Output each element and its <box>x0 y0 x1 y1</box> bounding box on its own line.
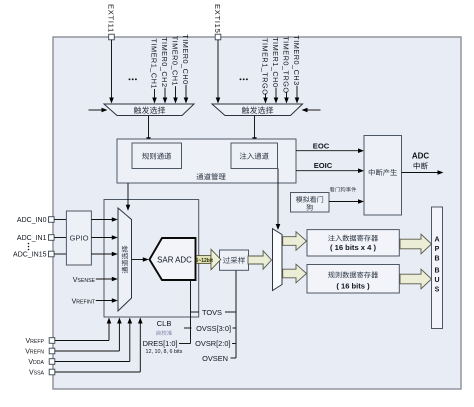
wire GPIO out 0 to channel mux <box>91 217 117 222</box>
svg-text:U: U <box>434 277 439 284</box>
signal TIMER1_CH1 <box>150 39 159 104</box>
label OVSR[2:0] <box>195 339 236 348</box>
oversampler box (过采样) <box>220 250 249 270</box>
wire DRES to core <box>179 281 191 344</box>
wire VSSA to ADC core <box>55 318 143 373</box>
wire ADC_IN1 to GPIO <box>54 237 66 239</box>
pin ADC_IN15 <box>13 251 54 258</box>
wire watchdog event to interrupt box <box>329 199 364 204</box>
signal TIMER0_CH2 <box>160 37 169 103</box>
APB bus <box>432 207 443 329</box>
output ADC interrupt <box>402 152 444 175</box>
injected channel box (注入通道) <box>231 143 278 169</box>
svg-text:( 16 bits ): ( 16 bits ) <box>336 281 370 290</box>
label OVSEN <box>202 354 236 363</box>
pin EXTI11 <box>107 4 116 40</box>
wire oversample controls to oversampler <box>235 271 237 359</box>
arrow regular register to APB bus <box>400 269 432 289</box>
svg-text:EXTI15: EXTI15 <box>213 4 222 34</box>
channel selection mux (通道选择) <box>118 208 132 311</box>
svg-text:VDDA: VDDA <box>28 359 44 366</box>
svg-text:TIMER1_CH1: TIMER1_CH1 <box>150 39 159 89</box>
GPIO box <box>66 211 91 265</box>
svg-text:ADC: ADC <box>412 152 430 161</box>
svg-text:EOC: EOC <box>313 141 330 150</box>
interrupt generation box (中断产生) <box>364 136 402 216</box>
arrow demux to injected data register <box>283 232 307 251</box>
svg-text:OVSS[3:0]: OVSS[3:0] <box>196 324 231 333</box>
trigger selection mux 1 <box>104 104 194 116</box>
svg-text:TIMER0_CH3: TIMER0_CH3 <box>292 35 301 85</box>
svg-text:VSSA: VSSA <box>29 370 45 377</box>
svg-text:S: S <box>435 287 440 294</box>
svg-text:P: P <box>435 246 440 253</box>
analog watchdog box (模拟看门狗) <box>291 193 330 213</box>
trigger selection mux 2 <box>212 104 303 116</box>
svg-text:TIMER0_CH1: TIMER0_CH1 <box>171 36 180 86</box>
ellipsis ADC_IN pins <box>28 243 30 251</box>
svg-text:SAR ADC: SAR ADC <box>157 255 192 264</box>
svg-text:( 16 bits x 4 ): ( 16 bits x 4 ) <box>330 243 376 252</box>
wire EOIC <box>296 161 364 173</box>
svg-text:EXTI11: EXTI11 <box>107 4 116 33</box>
label TOVS <box>191 308 237 317</box>
pin VREFN <box>25 348 55 355</box>
arrow demux to regular data register <box>283 264 307 283</box>
data register demux <box>273 229 283 291</box>
arrow oversampler to data demux <box>248 251 272 269</box>
signal TIMER0_TRGO <box>282 36 291 103</box>
wire GPIO out 1 to channel mux <box>91 235 117 240</box>
wire ADC_IN15 to GPIO <box>54 253 66 255</box>
svg-text:TIMER1_CH0: TIMER1_CH0 <box>271 37 280 87</box>
svg-text:ADC_IN0: ADC_IN0 <box>17 217 47 224</box>
arrow injected register to APB bus <box>400 234 432 254</box>
wire injected channel to data demux <box>276 169 281 231</box>
injected data register box <box>307 230 399 256</box>
pin ADC_IN0 <box>17 217 54 224</box>
svg-text:VSENSE: VSENSE <box>73 277 96 284</box>
wire EXTI11 to trigger mux 1 <box>109 40 114 104</box>
svg-text:OVSR[2:0]: OVSR[2:0] <box>195 339 230 348</box>
svg-text:TIMER0_CH0: TIMER0_CH0 <box>181 34 190 84</box>
svg-text:12, 10, 8, 6 bits: 12, 10, 8, 6 bits <box>146 349 183 355</box>
wire EOC <box>296 141 364 153</box>
svg-text:GPIO: GPIO <box>70 234 89 243</box>
wire software trigger into mux 1 <box>89 108 108 113</box>
channel management box (通道管理) <box>117 139 296 183</box>
svg-text:TIMER0_CH2: TIMER0_CH2 <box>160 37 169 87</box>
signal TIMER1_TRGO <box>261 38 270 104</box>
wire VREFP to ADC core <box>55 318 112 341</box>
svg-text:VREFINT: VREFINT <box>72 298 96 305</box>
wire channel mux to SAR ADC <box>132 257 149 262</box>
regular channel box (规则通道) <box>132 143 182 169</box>
label watchdog event (看门狗事件) <box>330 187 357 192</box>
signal VSENSE <box>73 277 118 284</box>
wire VREFN to ADC core <box>55 318 122 352</box>
SAR ADC converter <box>150 238 196 280</box>
svg-text:EOIC: EOIC <box>314 161 333 170</box>
pin VSSA <box>29 369 55 376</box>
label OVSS[3:0] <box>184 324 236 333</box>
svg-text:DRES[1:0]: DRES[1:0] <box>143 339 178 348</box>
main ADC module box <box>53 37 461 389</box>
pin ADC_IN1 <box>17 235 54 242</box>
ADC core box <box>104 200 199 318</box>
signal TIMER1_CH0 <box>271 37 280 103</box>
svg-text:A: A <box>434 236 439 243</box>
svg-text:CLB: CLB <box>157 319 172 328</box>
svg-text:ADC_IN15: ADC_IN15 <box>13 252 47 259</box>
svg-text:6~12bit: 6~12bit <box>196 258 214 264</box>
signal TIMER0_CH3 <box>292 35 301 103</box>
wire ADC_IN0 to GPIO <box>54 219 66 221</box>
svg-text:B: B <box>434 268 439 275</box>
signal TIMER0_CH1 <box>171 36 180 104</box>
wire VDDA to ADC core <box>55 318 132 362</box>
wire GPIO out 15 to channel mux <box>91 252 117 257</box>
signal TIMER0_CH0 <box>181 34 190 103</box>
svg-text:TIMER1_TRGO: TIMER1_TRGO <box>261 38 270 95</box>
svg-text:TOVS: TOVS <box>202 308 222 317</box>
wire mux 2 to injected channel block <box>252 116 257 144</box>
ellipsis between EXTI15 and TIMER signals <box>240 78 248 80</box>
pin EXTI15 <box>213 4 222 40</box>
pin VDDA <box>28 359 54 366</box>
regular data register box <box>307 265 399 294</box>
svg-text:TIMER0_TRGO: TIMER0_TRGO <box>282 36 291 93</box>
wire EXTI15 to trigger mux 2 <box>216 40 221 104</box>
svg-text:OVSEN: OVSEN <box>202 354 228 363</box>
svg-text:ADC_IN1: ADC_IN1 <box>17 235 47 242</box>
ellipsis between EXTI11 and TIMER signals <box>129 78 137 80</box>
label DRES[1:0] <box>143 339 183 355</box>
pin VREFP <box>25 338 54 345</box>
wire regular channel to channel mux <box>126 183 131 211</box>
svg-text:VREFP: VREFP <box>25 338 44 345</box>
wire mux 1 to regular channel block <box>146 116 151 144</box>
svg-text:VREFN: VREFN <box>25 349 44 356</box>
svg-text:B: B <box>434 255 439 262</box>
signal VREFINT <box>72 298 118 305</box>
label CLB and 自校准 <box>157 319 173 335</box>
wire software trigger into mux 2 <box>302 108 321 113</box>
data width arrow 6~12bit <box>196 249 221 269</box>
